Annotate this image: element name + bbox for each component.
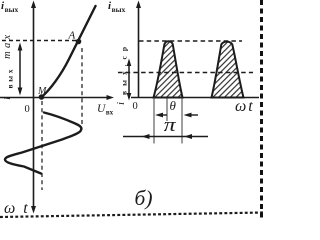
theta dimension arrows (155, 113, 198, 118)
input sine wave (u_vx vs omega-t) (5, 113, 81, 174)
dashed bias vertical line below M (41, 101, 43, 190)
bottom dotted page rule (0, 213, 264, 218)
svg-text:ω t: ω t (4, 200, 30, 217)
svg-text:A: A (68, 30, 76, 42)
right graph horizontal axis (omega-t) (131, 97, 259, 99)
svg-text:ωt: ωt (235, 98, 255, 115)
dashed level line i_vyh_max (2, 40, 79, 42)
left graph vertical axis (i_vyh / omega-t axis) (31, 1, 36, 214)
double arrow for i_vyh_sr (127, 59, 132, 101)
guide line at pulse1 left base (153, 98, 155, 144)
current pulse 1 (hatched) (154, 41, 183, 97)
top dashed clip level line (139, 40, 242, 42)
double arrow for i_vyh_max (18, 43, 23, 96)
transfer curve M to A and beyond (41, 6, 96, 98)
pi dimension line with arrows (123, 134, 208, 139)
current pulse 2 (hatched) (212, 42, 244, 98)
svg-text:б): б) (135, 186, 153, 210)
svg-text:0: 0 (25, 104, 30, 115)
dashed vertical line from A down to sine peak (81, 48, 83, 124)
right graph vertical axis (136, 1, 141, 98)
svg-text:θ: θ (170, 98, 177, 113)
svg-text:π: π (164, 114, 177, 135)
guide line at pulse1 right base (181, 98, 183, 144)
svg-text:0: 0 (133, 101, 138, 112)
guide line at pulse1 center (166, 98, 168, 121)
point A dot (76, 39, 82, 45)
svg-text:M: M (37, 86, 47, 97)
dashed average level line i_vyh_sr (118, 72, 253, 74)
point M dot (39, 94, 45, 100)
right dashed page border (260, 0, 263, 220)
left graph horizontal axis (U_vx) (0, 95, 114, 100)
